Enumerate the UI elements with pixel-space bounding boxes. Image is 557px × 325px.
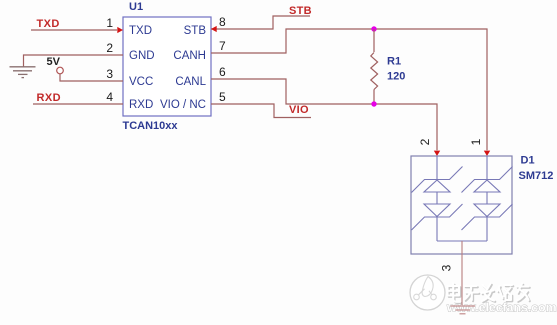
svg-text:SM712: SM712	[519, 170, 554, 182]
refdes R1	[387, 56, 401, 68]
pin number 7	[219, 39, 226, 53]
pin number 4	[106, 90, 113, 104]
svg-text:STB: STB	[289, 5, 312, 17]
arrow into D1 pin 1	[484, 151, 490, 156]
arrow into D1 pin 2	[434, 151, 440, 156]
svg-text:3: 3	[440, 264, 454, 271]
refdes D1	[521, 155, 535, 167]
pin number 1	[106, 16, 113, 30]
resistor R1	[371, 29, 378, 104]
wire STB net from pin 8	[211, 16, 310, 29]
diode D1d (right bottom zener, cathode down)	[462, 192, 513, 241]
5V supply label	[47, 56, 61, 68]
svg-text:5V: 5V	[47, 56, 61, 68]
svg-text:TXD: TXD	[129, 25, 152, 37]
U1 pin name GND	[129, 50, 155, 62]
pin number 8	[219, 15, 226, 29]
svg-text:6: 6	[219, 65, 226, 79]
svg-text:TCAN10xx: TCAN10xx	[123, 120, 179, 132]
pin number 2 (rotated)	[418, 138, 432, 145]
svg-text:VIO / NC: VIO / NC	[160, 99, 206, 111]
net label STB	[289, 5, 312, 17]
pin number 6	[219, 65, 226, 79]
wire D1 pin 3 to ground	[461, 241, 463, 305]
svg-text:8: 8	[219, 15, 226, 29]
pin number 2	[106, 41, 113, 55]
svg-text:R1: R1	[387, 56, 401, 68]
arrow into pin 8	[211, 26, 217, 32]
svg-text:5: 5	[219, 90, 226, 104]
svg-text:7: 7	[219, 39, 226, 53]
svg-text:1: 1	[106, 16, 113, 30]
pin number 3	[106, 67, 113, 81]
U1 pin name CANH	[173, 50, 206, 62]
svg-text:VIO: VIO	[289, 104, 309, 116]
svg-text:www.elecfans.com: www.elecfans.com	[446, 301, 557, 315]
svg-text:STB: STB	[184, 25, 207, 37]
svg-text:CANH: CANH	[173, 50, 206, 62]
pin number 3 (rotated)	[440, 264, 454, 271]
value SM712	[519, 170, 554, 182]
svg-text:U1: U1	[129, 1, 143, 13]
wire VIO net from pin 5	[211, 104, 311, 118]
net label TXD	[37, 18, 60, 30]
svg-text:2: 2	[106, 41, 113, 55]
watermark logo circle	[410, 275, 445, 310]
5V port circle	[57, 67, 64, 74]
svg-text:RXD: RXD	[37, 92, 61, 104]
ground symbol (bottom)	[451, 306, 476, 314]
pin number 1 (rotated)	[469, 138, 483, 145]
op-amp U1 body (transceiver IC box)	[123, 17, 211, 116]
svg-text:D1: D1	[521, 155, 535, 167]
U1 pin name VIO / NC	[160, 99, 206, 111]
svg-text:TXD: TXD	[37, 18, 60, 30]
net label VIO	[289, 104, 309, 116]
svg-text:3: 3	[106, 67, 113, 81]
refdes U1	[129, 1, 143, 13]
svg-text:RXD: RXD	[129, 99, 153, 111]
wire VCC pin 3	[60, 74, 123, 81]
wire D1 common join	[437, 240, 487, 242]
ground symbol (left)	[10, 67, 36, 78]
U1 pin name VCC	[129, 76, 153, 88]
wire TXD net	[31, 29, 117, 31]
svg-text:CANL: CANL	[175, 76, 206, 88]
svg-text:1: 1	[469, 138, 483, 145]
wire CANH net	[211, 29, 487, 150]
diode D1c (right top zener, cathode up)	[462, 156, 513, 193]
pin number 5	[219, 90, 226, 104]
svg-text:4: 4	[106, 90, 113, 104]
U1 pin name TXD	[129, 25, 152, 37]
diode D1b (left bottom zener, cathode down)	[412, 192, 463, 241]
svg-text:GND: GND	[129, 50, 155, 62]
svg-text:120: 120	[387, 71, 405, 83]
svg-text:2: 2	[418, 138, 432, 145]
wire GND pin 2	[24, 55, 124, 67]
diode D1a (left top zener, cathode up)	[412, 156, 463, 193]
arrow into pin 1	[117, 27, 123, 33]
value 120	[387, 71, 405, 83]
watermark chinese text (embossed)	[448, 284, 530, 304]
wire CANL net	[211, 79, 437, 150]
U1 pin name RXD	[129, 99, 153, 111]
U1 pin name STB	[184, 25, 207, 37]
value TCAN10xx	[123, 120, 179, 132]
svg-text:VCC: VCC	[129, 76, 153, 88]
junction node CANL/R1	[371, 101, 376, 106]
net label RXD	[37, 92, 61, 104]
U1 pin name CANL	[175, 76, 206, 88]
wire RXD net	[33, 103, 123, 105]
watermark url text	[446, 301, 557, 315]
TVS diode array D1 box	[411, 156, 512, 254]
junction node CANH/R1	[371, 26, 376, 31]
